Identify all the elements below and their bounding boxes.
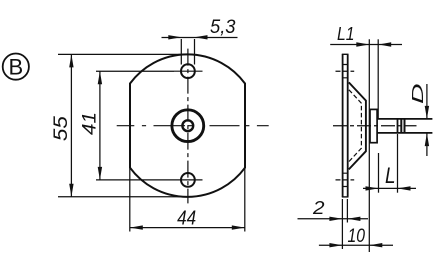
dimension 41 bbox=[80, 71, 174, 180]
dim D upper dimension line bbox=[426, 84, 428, 119]
dim L left extension line bbox=[378, 153, 380, 193]
plate front face line bbox=[347, 54, 349, 197]
svg-text:L: L bbox=[385, 163, 396, 188]
dimension 2 bbox=[298, 198, 369, 249]
side view cone profile bbox=[349, 82, 366, 169]
dim 5,3 right arrowhead bbox=[195, 35, 208, 39]
dim L left arrowhead bbox=[366, 186, 379, 190]
dimension 10 bbox=[319, 226, 393, 247]
plate back extension line (shared with dim 10) bbox=[341, 199, 343, 249]
side view centerline bbox=[333, 125, 417, 127]
dim 5,3 left extension line bbox=[180, 39, 182, 65]
dim 44 right extension line bbox=[244, 168, 246, 232]
front view horizontal centerline bbox=[117, 125, 269, 127]
extension line at boss base (shared with dim 10) bbox=[368, 39, 370, 252]
dimension 55 bbox=[51, 54, 188, 196]
svg-text:55: 55 bbox=[51, 116, 72, 142]
groove ring line 1 bbox=[400, 119, 402, 133]
dim 10 right arrowhead bbox=[369, 243, 382, 247]
dim L dimension line bbox=[363, 187, 416, 189]
side view boss rectangle bbox=[370, 109, 377, 142]
stud bottom line bbox=[377, 132, 432, 134]
dim 55 dimension line bbox=[70, 54, 72, 196]
dimension D bbox=[410, 84, 429, 157]
dim L1 right extension line at stud face bbox=[377, 39, 379, 118]
view label balloon B bbox=[3, 54, 29, 80]
dim 5,3 right extension line bbox=[194, 39, 196, 65]
stud cylinder end / groove wall bbox=[397, 119, 399, 133]
dim 2 right arrowhead bbox=[347, 217, 360, 221]
dim 41 bottom extension line bbox=[96, 179, 174, 181]
dim 55 bottom arrowhead bbox=[69, 184, 73, 197]
side view bottom hole edges bbox=[343, 173, 348, 186]
front view vertical centerline bbox=[187, 49, 189, 204]
dim L1 right arrowhead bbox=[378, 42, 391, 46]
stud outline bbox=[377, 119, 432, 133]
boss outer circle bbox=[172, 110, 204, 142]
svg-text:41: 41 bbox=[80, 112, 101, 135]
boss inner circle bbox=[182, 120, 193, 131]
bottom mounting hole bbox=[181, 173, 195, 187]
dim 41 bottom arrowhead bbox=[98, 167, 102, 180]
plate front extension line bbox=[346, 199, 348, 223]
dim L right arrowhead bbox=[398, 186, 411, 190]
top mounting hole bbox=[181, 64, 195, 78]
dim D lower arrowhead bbox=[425, 133, 429, 146]
dimension L bbox=[363, 134, 416, 193]
dimension L1 bbox=[330, 24, 402, 252]
dim 44 left extension line bbox=[129, 168, 131, 232]
dimension 44 bbox=[130, 168, 245, 232]
dimension 5,3 bbox=[162, 16, 238, 65]
top hole horizontal centerline bbox=[174, 70, 203, 72]
plate bottom edge bbox=[342, 196, 349, 198]
svg-text:L1: L1 bbox=[337, 24, 355, 44]
dim 2 dimension line bbox=[298, 218, 369, 220]
dim D lower dimension line bbox=[426, 133, 428, 156]
dim 44 right arrowhead bbox=[232, 225, 245, 229]
bottom hole horizontal centerline bbox=[174, 179, 203, 181]
dim 5,3 dimension line bbox=[162, 37, 238, 39]
side view cone hidden profile bbox=[349, 90, 362, 162]
dim L1 dimension line bbox=[330, 44, 402, 46]
plate back face line bbox=[342, 54, 344, 197]
dim 44 dimension line bbox=[130, 227, 245, 229]
svg-text:44: 44 bbox=[177, 207, 196, 229]
dim 10 dimension line bbox=[319, 244, 393, 246]
dim L1 left arrowhead bbox=[356, 42, 369, 46]
dim 5,3 left arrowhead bbox=[168, 35, 181, 39]
svg-text:5,3: 5,3 bbox=[210, 16, 236, 38]
side view top hole edges bbox=[343, 65, 348, 78]
dim 41 top extension line bbox=[96, 70, 174, 72]
dim 2 left arrowhead bbox=[329, 217, 342, 221]
svg-text:10: 10 bbox=[348, 226, 366, 247]
side view plate bbox=[342, 54, 349, 197]
dim 44 left arrowhead bbox=[130, 225, 143, 229]
svg-text:D: D bbox=[410, 84, 427, 105]
side view top hole centerline bbox=[336, 70, 355, 72]
dim D upper arrowhead bbox=[425, 106, 429, 119]
dim 41 top arrowhead bbox=[98, 71, 102, 84]
stud top line bbox=[377, 118, 432, 120]
svg-text:B: B bbox=[8, 55, 23, 80]
dim 41 dimension line bbox=[99, 71, 101, 180]
front view plate outline bbox=[130, 54, 245, 196]
dim L right extension line bbox=[397, 134, 399, 193]
dim 10 left arrowhead bbox=[329, 243, 342, 247]
dim 55 top extension line bbox=[58, 53, 188, 55]
dim 55 top arrowhead bbox=[69, 54, 73, 67]
side view bottom hole centerline bbox=[336, 179, 355, 181]
groove ring line 2 bbox=[404, 119, 406, 133]
svg-text:2: 2 bbox=[312, 198, 325, 218]
plate top edge bbox=[342, 53, 349, 55]
dim 55 bottom extension line bbox=[58, 196, 188, 198]
